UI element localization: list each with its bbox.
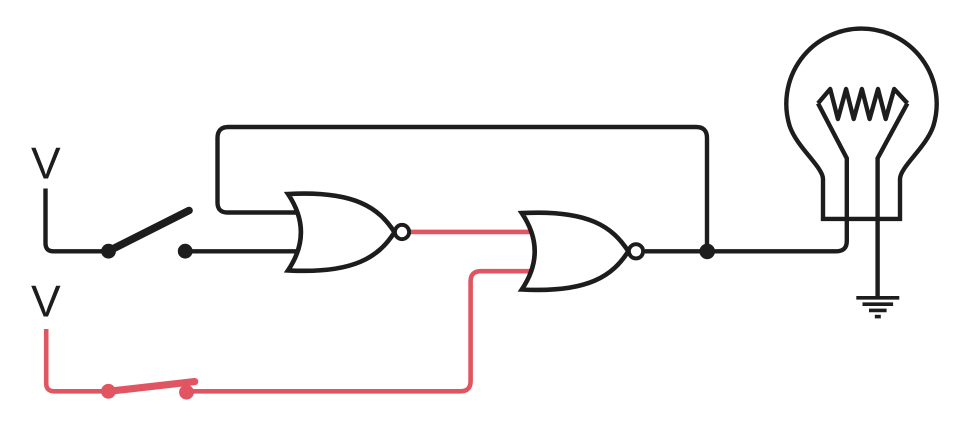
wire NOR2 output to node Q and lamp bbox=[645, 103, 847, 251]
switch S1 blade (open) bbox=[108, 211, 189, 252]
wire V2 to switch S2 bbox=[46, 329, 108, 391]
switch S1 throw dot bbox=[178, 244, 193, 259]
feedback wire node Q to NOR1 input A bbox=[218, 127, 708, 246]
NOR2 output bubble bbox=[629, 244, 643, 258]
NOR gate U1 body bbox=[288, 194, 395, 271]
NOR1 output bubble bbox=[395, 225, 409, 239]
wire V1 to switch S1 bbox=[46, 189, 109, 252]
lamp filament bbox=[818, 89, 907, 119]
switch S1 pole dot bbox=[101, 244, 116, 259]
node Q junction dot bbox=[699, 244, 715, 260]
wire switch S2 to NOR2 input B bbox=[187, 271, 532, 391]
svg-text:V: V bbox=[31, 139, 61, 188]
NOR gate U2 body bbox=[522, 213, 629, 290]
svg-text:V: V bbox=[31, 278, 61, 327]
lamp right support wire to ground bbox=[878, 103, 908, 296]
wire switch S1 to NOR1 input B bbox=[185, 249, 300, 253]
ground symbol bbox=[856, 298, 899, 317]
switch S2 throw dot bbox=[179, 385, 194, 400]
wire NOR1 output to NOR2 input A bbox=[411, 230, 532, 235]
switch S2 blade (closed) bbox=[108, 382, 194, 392]
lamp DS1 envelope bbox=[786, 29, 936, 219]
switch S2 pole dot bbox=[101, 384, 116, 399]
